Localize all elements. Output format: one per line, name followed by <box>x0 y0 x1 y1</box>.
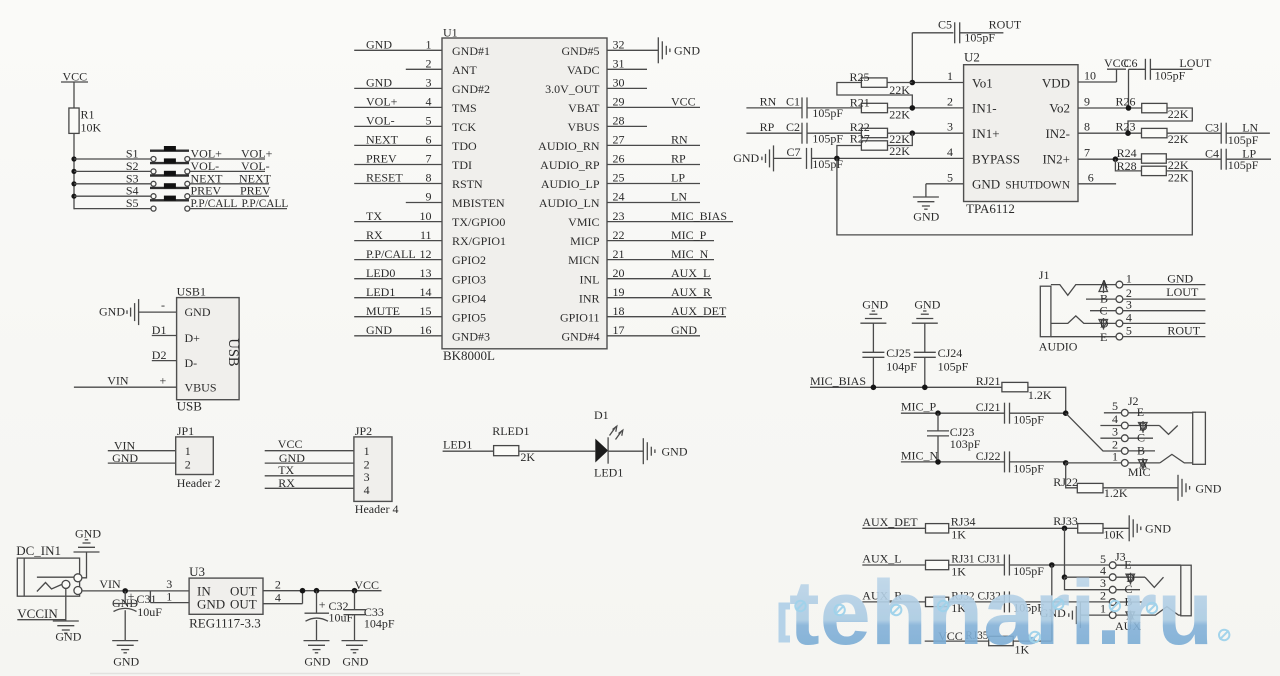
svg-text:1: 1 <box>166 590 172 604</box>
svg-text:USB: USB <box>225 338 241 366</box>
wire D1 to ground <box>608 450 643 452</box>
svg-text:LED0: LED0 <box>366 266 395 280</box>
wire C6 to pin9 junction <box>1128 69 1130 108</box>
resistor R23 <box>1116 120 1189 146</box>
svg-text:INR: INR <box>579 291 600 305</box>
svg-text:GPIO2: GPIO2 <box>452 253 486 267</box>
svg-text:VOL+: VOL+ <box>366 95 398 109</box>
resistor R21 <box>850 95 910 121</box>
svg-text:CJ24: CJ24 <box>938 346 963 360</box>
connector JP1 Header 2 <box>176 424 221 490</box>
svg-text:29: 29 <box>613 95 625 109</box>
svg-text:LN: LN <box>1242 120 1258 134</box>
svg-text:CJ22: CJ22 <box>976 449 1001 463</box>
svg-text:PREV: PREV <box>240 184 271 198</box>
resistor RJ31 <box>926 553 975 578</box>
svg-text:USB1: USB1 <box>177 285 206 299</box>
resistor RJ34 <box>926 515 976 542</box>
svg-text:22K: 22K <box>1168 170 1189 184</box>
svg-text:C7: C7 <box>787 145 801 159</box>
svg-text:GPIO4: GPIO4 <box>452 291 486 305</box>
svg-text:Vo1: Vo1 <box>972 75 993 90</box>
pin J2-4 <box>1100 412 1159 429</box>
svg-text:AUX_R: AUX_R <box>671 285 711 299</box>
svg-text:LN: LN <box>671 190 687 204</box>
ground at RJ22 <box>1178 475 1222 501</box>
wire U2 pin3 <box>807 120 964 136</box>
connector J2 jack body <box>1128 412 1205 479</box>
svg-text:LOUT: LOUT <box>1179 56 1212 70</box>
svg-text:NEXT: NEXT <box>366 133 399 147</box>
resistor RJ35 <box>965 630 1029 657</box>
svg-text:JP2: JP2 <box>355 424 372 438</box>
svg-text:GND: GND <box>342 655 368 669</box>
svg-text:8: 8 <box>426 171 432 185</box>
svg-text:+: + <box>319 598 326 612</box>
connector J3 jack body <box>1115 565 1191 633</box>
svg-text:GND: GND <box>366 38 392 52</box>
wire J3 tip bump <box>1147 607 1181 616</box>
svg-text:P.P/CALL: P.P/CALL <box>366 247 416 261</box>
svg-text:VCC: VCC <box>278 437 303 451</box>
capacitor C1 <box>786 95 843 120</box>
svg-text:BK8000L: BK8000L <box>443 348 495 363</box>
svg-text:GND: GND <box>1195 481 1221 495</box>
svg-text:105pF: 105pF <box>1013 461 1044 475</box>
svg-text:DC_IN1: DC_IN1 <box>16 543 61 558</box>
pin J3-2 <box>1100 589 1142 606</box>
wire J3 ring notch <box>1145 577 1164 587</box>
node VIN <box>99 577 128 594</box>
svg-text:LP: LP <box>671 171 685 185</box>
ground at U2 pin5 <box>913 197 940 224</box>
svg-text:R21: R21 <box>850 95 870 109</box>
svg-text:17: 17 <box>613 323 625 337</box>
svg-text:5: 5 <box>947 170 953 184</box>
svg-text:18: 18 <box>613 304 625 318</box>
svg-text:10: 10 <box>1084 69 1096 83</box>
wire D2 net to USB D- <box>152 348 177 362</box>
svg-text:22K: 22K <box>1168 132 1189 146</box>
svg-text:2: 2 <box>426 57 432 71</box>
svg-text:C4: C4 <box>1205 146 1219 160</box>
svg-text:RX: RX <box>366 228 383 242</box>
svg-text:ANT: ANT <box>452 63 477 77</box>
svg-text:RSTN: RSTN <box>452 177 483 191</box>
pin J1-2 <box>1116 286 1205 302</box>
capacitor CJ22 <box>976 449 1066 476</box>
wire RLED1 to D1 <box>519 450 596 452</box>
svg-text:3: 3 <box>364 470 370 484</box>
wire U1 pin 17 <box>607 323 700 337</box>
switch S5 <box>74 196 190 212</box>
svg-text:12: 12 <box>420 247 432 261</box>
pin J2-2 <box>1112 437 1155 454</box>
wire R23 to C3 <box>1167 132 1221 134</box>
pin contact D arrow <box>1099 317 1109 331</box>
svg-text:PREV: PREV <box>366 152 397 166</box>
svg-text:U1: U1 <box>443 26 458 40</box>
ground at C31 <box>112 641 139 669</box>
svg-text:D: D <box>1100 317 1109 331</box>
svg-text:4: 4 <box>947 145 953 159</box>
connector DC_IN1 barrel jack <box>16 543 82 596</box>
pin J1-3 <box>1116 298 1205 314</box>
pin J1-5 <box>1116 324 1205 340</box>
wire CJ31 junction to RJ35 <box>1051 565 1053 641</box>
svg-text:J1: J1 <box>1039 268 1050 282</box>
svg-text:4: 4 <box>364 483 370 497</box>
svg-text:C6: C6 <box>1124 56 1138 70</box>
wire U1 pin 13 <box>354 266 442 280</box>
wire U2 pin9 <box>1078 95 1142 111</box>
wire U2 pin4 BYPASS <box>812 145 964 161</box>
svg-text:D2: D2 <box>152 348 167 362</box>
node junction S2 <box>71 169 76 174</box>
svg-text:IN1+: IN1+ <box>972 126 1000 141</box>
resistor RJ22 <box>1053 475 1128 500</box>
svg-text:GND: GND <box>1167 272 1193 286</box>
svg-text:5: 5 <box>426 114 432 128</box>
svg-text:INL: INL <box>580 272 600 286</box>
wire U3 OUT pin2 <box>263 578 382 592</box>
node AUX_DET <box>862 515 925 529</box>
svg-text:VIN: VIN <box>107 374 129 388</box>
node RN <box>746 95 802 109</box>
wire U1 pin 16 <box>354 323 442 337</box>
wire U1 pin 32 <box>607 38 658 52</box>
svg-text:C1: C1 <box>786 95 800 109</box>
ground at RJ33 <box>1129 515 1171 541</box>
resistor R25 <box>850 70 913 97</box>
wire CJ21 junction diagonal to J2 pin2 <box>1066 413 1122 451</box>
wire R1 to switch bus <box>73 133 75 209</box>
pin J3-5 <box>1100 552 1181 569</box>
svg-text:VBAT: VBAT <box>568 101 600 115</box>
svg-text:7: 7 <box>426 152 432 166</box>
svg-text:GND#4: GND#4 <box>562 329 600 343</box>
switch S1 <box>74 146 190 162</box>
node AUX_L <box>862 552 925 566</box>
svg-text:105pF: 105pF <box>938 360 969 374</box>
svg-text:1: 1 <box>1126 272 1132 286</box>
svg-text:GND: GND <box>862 298 888 312</box>
wire U2 pin7 <box>1078 146 1142 162</box>
wire R26 feedback loop <box>1128 108 1192 133</box>
wire U1 pin 18 <box>607 304 727 318</box>
svg-text:105pF: 105pF <box>812 106 843 120</box>
svg-text:21: 21 <box>613 247 625 261</box>
svg-text:C5: C5 <box>938 18 952 32</box>
svg-text:MIC_P: MIC_P <box>671 228 707 242</box>
svg-text:AUDIO: AUDIO <box>1039 339 1078 353</box>
svg-text:D+: D+ <box>185 331 201 345</box>
switch S3 <box>74 171 190 187</box>
svg-text:2K: 2K <box>520 450 535 464</box>
capacitor C3 <box>1205 120 1270 147</box>
svg-text:AUX_DET: AUX_DET <box>671 304 727 318</box>
svg-text:1: 1 <box>364 444 370 458</box>
svg-text:RP: RP <box>760 120 775 134</box>
svg-text:AUX_L: AUX_L <box>671 266 710 280</box>
node MIC_P <box>901 400 1005 416</box>
pin J2-5 <box>1104 399 1193 416</box>
node MIC_N <box>901 449 1005 465</box>
svg-text:VDD: VDD <box>1042 75 1070 90</box>
svg-text:D1: D1 <box>594 408 609 422</box>
svg-text:GPIO3: GPIO3 <box>452 272 486 286</box>
svg-text:16: 16 <box>420 323 432 337</box>
svg-text:VCCIN: VCCIN <box>17 606 58 621</box>
ground at U1 pin 32 <box>658 37 700 63</box>
svg-text:GPIO11: GPIO11 <box>560 310 600 324</box>
svg-text:U3: U3 <box>189 564 205 579</box>
svg-text:LED1: LED1 <box>594 465 623 479</box>
connector USB1 body <box>177 285 241 414</box>
svg-text:AUDIO_LP: AUDIO_LP <box>541 177 600 191</box>
svg-text:VADC: VADC <box>567 63 599 77</box>
svg-text:AUDIO_RP: AUDIO_RP <box>540 158 600 172</box>
svg-text:SHUTDOWN: SHUTDOWN <box>1005 180 1070 192</box>
svg-text:25: 25 <box>613 171 625 185</box>
svg-text:TCK: TCK <box>452 120 476 134</box>
capacitor C7 <box>787 145 844 171</box>
svg-text:IN1-: IN1- <box>972 101 997 116</box>
wire U1 pin 12 <box>354 247 442 261</box>
switch S2 <box>74 158 190 174</box>
svg-text:GND#1: GND#1 <box>452 44 490 58</box>
wire U1 pin 11 <box>354 228 442 242</box>
wire U2 pin8 <box>1078 120 1142 136</box>
wire R25 feedback loop <box>837 83 912 108</box>
svg-text:22K: 22K <box>1168 107 1189 121</box>
svg-text:MICN: MICN <box>568 253 600 267</box>
svg-text:+: + <box>160 374 167 388</box>
svg-text:A: A <box>1100 277 1109 291</box>
switch S4 <box>74 183 190 199</box>
svg-text:RX/GPIO1: RX/GPIO1 <box>452 234 506 248</box>
capacitor CJ25 <box>862 323 917 387</box>
svg-text:E: E <box>1100 330 1107 344</box>
svg-text:105pF: 105pF <box>1155 69 1186 83</box>
wire U2 pin6 stub <box>1078 170 1116 184</box>
node AUX_R <box>862 589 925 603</box>
resistor R27 <box>850 132 910 159</box>
resistor R1 <box>69 108 102 135</box>
svg-text:104pF: 104pF <box>886 360 917 374</box>
svg-text:GND: GND <box>197 597 225 612</box>
wire U1 pin 27 <box>607 133 700 147</box>
wire RJ33 to ground <box>1103 527 1129 529</box>
svg-text:23: 23 <box>613 209 625 223</box>
node junction S3 <box>71 181 76 186</box>
svg-text:TX/GPIO0: TX/GPIO0 <box>452 215 505 229</box>
svg-text:VOL-: VOL- <box>366 114 395 128</box>
svg-text:MIC: MIC <box>1128 465 1151 479</box>
wire U3 GND pin <box>150 577 189 604</box>
svg-text:VCC: VCC <box>671 95 696 109</box>
svg-text:GND: GND <box>733 151 759 165</box>
svg-text:GND: GND <box>185 305 211 319</box>
svg-text:GND: GND <box>674 43 700 57</box>
svg-text:22K: 22K <box>889 107 910 121</box>
wire U1 pin 1 <box>354 38 442 52</box>
wire U1 pin 21 <box>607 247 714 261</box>
svg-text:GND: GND <box>972 177 1000 192</box>
svg-text:D-: D- <box>185 356 198 370</box>
svg-text:BYPASS: BYPASS <box>972 151 1020 166</box>
resistor RJ32 <box>926 590 975 615</box>
svg-text:TDI: TDI <box>452 158 472 172</box>
capacitor C5 <box>912 18 1003 45</box>
svg-text:CJ21: CJ21 <box>976 400 1001 414</box>
svg-text:VBUS: VBUS <box>567 120 599 134</box>
wire U1 pin 22 <box>607 228 714 242</box>
resistor R28 <box>1117 159 1189 184</box>
wire RJ22 to ground <box>1103 487 1178 489</box>
svg-text:GND#3: GND#3 <box>452 329 490 343</box>
svg-text:105pF: 105pF <box>1228 133 1259 147</box>
diode D1 LED <box>594 408 623 479</box>
capacitor C32 <box>305 588 354 640</box>
wire bypass feedback bottom <box>837 158 1192 235</box>
wire TX to JP2 pin3 <box>265 463 354 477</box>
svg-text:JP1: JP1 <box>177 424 194 438</box>
wire DC jack sleeve to ground <box>82 552 87 578</box>
ground at CJ25 <box>860 298 888 324</box>
svg-text:GND: GND <box>304 655 330 669</box>
wire S3 net <box>190 183 269 185</box>
svg-text:8: 8 <box>1084 120 1090 134</box>
svg-text:D1: D1 <box>152 323 167 337</box>
op-amp U1 BK8000L chip body <box>442 26 607 364</box>
pin J2-3 <box>1100 425 1153 442</box>
wire U2 pin10 to VCC <box>1078 69 1117 83</box>
ground at C33 <box>342 641 369 669</box>
svg-text:MUTE: MUTE <box>366 304 400 318</box>
svg-text:P.P/CALL: P.P/CALL <box>242 198 289 210</box>
resistor RJ21 <box>976 374 1052 402</box>
wire U1 pin 2 <box>406 57 442 71</box>
svg-text:VBUS: VBUS <box>185 381 217 395</box>
svg-text:LED1: LED1 <box>443 438 472 452</box>
svg-text:GND: GND <box>662 444 688 458</box>
svg-text:32: 32 <box>613 38 625 52</box>
svg-text:Header 2: Header 2 <box>177 476 221 490</box>
wire U1 pin 25 <box>607 171 700 185</box>
svg-text:USB: USB <box>177 398 203 413</box>
wire R24 junction to R28 <box>1115 159 1141 171</box>
resistor R24 <box>1117 146 1189 172</box>
wire RJ35 to CJ31 junction <box>1013 640 1052 642</box>
wire U2 pin1 <box>910 69 964 85</box>
svg-text:14: 14 <box>420 285 432 299</box>
wire RJ33 junction down to J3 <box>1062 528 1110 589</box>
wire LED1 to RLED1 <box>443 450 494 452</box>
wire U1 pin 30 <box>607 76 647 90</box>
wire DC jack pin to ground <box>65 588 67 621</box>
svg-text:MICP: MICP <box>570 234 600 248</box>
svg-text:VMIC: VMIC <box>568 215 599 229</box>
capacitor C31 <box>112 589 162 640</box>
svg-text:C2: C2 <box>786 120 800 134</box>
svg-text:5: 5 <box>1126 324 1132 338</box>
svg-text:2: 2 <box>947 94 953 108</box>
svg-text:GND: GND <box>913 210 939 224</box>
svg-text:IN2+: IN2+ <box>1042 151 1070 166</box>
svg-text:19: 19 <box>613 285 625 299</box>
svg-text:GND: GND <box>75 527 101 541</box>
svg-text:LP: LP <box>1242 146 1256 160</box>
svg-text:OUT: OUT <box>230 597 257 612</box>
wire U1 pin 15 <box>354 304 442 318</box>
node RP <box>746 120 802 134</box>
ground at CJ24 <box>912 298 941 324</box>
pin label C <box>1090 304 1116 318</box>
wire VCC to R1 <box>73 82 75 108</box>
svg-text:GND: GND <box>99 304 125 318</box>
svg-text:1: 1 <box>1112 449 1118 463</box>
svg-text:GND: GND <box>113 655 139 669</box>
wire U1 pin 29 <box>607 95 700 109</box>
svg-text:1.2K: 1.2K <box>1028 388 1052 402</box>
svg-text:RESET: RESET <box>366 171 403 185</box>
wire RJ34 to RJ33 <box>949 526 1078 532</box>
svg-text:9: 9 <box>1084 95 1090 109</box>
svg-text:C3: C3 <box>1205 120 1219 134</box>
svg-text:MIC_P: MIC_P <box>901 400 937 414</box>
svg-text:R27: R27 <box>850 132 870 146</box>
wire S4 net <box>190 195 269 197</box>
svg-text:GND: GND <box>366 323 392 337</box>
svg-text:B: B <box>1137 443 1145 457</box>
svg-text:Header 4: Header 4 <box>355 502 399 516</box>
svg-text:1: 1 <box>426 38 432 52</box>
svg-text:GPIO5: GPIO5 <box>452 310 486 324</box>
pin label B <box>1086 292 1116 306</box>
wire D1 net to USB D+ <box>152 323 177 337</box>
node junction S4 <box>71 194 76 199</box>
svg-text:RJ33: RJ33 <box>1053 514 1078 528</box>
resistor R22 <box>850 120 910 146</box>
wire U1 pin 31 <box>607 57 647 71</box>
svg-text:2: 2 <box>185 457 191 471</box>
wire R27 to pin3 junction <box>888 133 913 145</box>
resistor RLED1 <box>492 424 535 464</box>
wire U1 pin 20 <box>607 266 711 280</box>
wire C5 to pin1 junction <box>911 33 913 83</box>
wire RJ21 to CJ21 junction <box>1028 387 1066 413</box>
wire U2 pin2 <box>807 94 964 110</box>
svg-text:TPA6112: TPA6112 <box>966 201 1015 216</box>
svg-text:ROUT: ROUT <box>989 18 1022 32</box>
capacitor C6 <box>1124 56 1193 82</box>
svg-text:LED1: LED1 <box>366 285 395 299</box>
pin contact A arrow at J2 <box>1139 456 1148 470</box>
ground at D1 <box>643 438 688 464</box>
svg-text:RLED1: RLED1 <box>492 424 529 438</box>
svg-text:MBISTEN: MBISTEN <box>452 196 505 210</box>
svg-text:6: 6 <box>1088 170 1094 184</box>
connector JP2 Header 4 <box>354 424 399 516</box>
svg-text:10: 10 <box>420 209 432 223</box>
capacitor CJ23 <box>927 413 981 462</box>
wire U1 pin 24 <box>607 190 700 204</box>
wire U1 pin 19 <box>607 285 712 299</box>
pin J2-1 <box>1112 449 1160 466</box>
svg-text:7: 7 <box>1084 146 1090 160</box>
pin contact A arrow <box>1099 277 1109 294</box>
